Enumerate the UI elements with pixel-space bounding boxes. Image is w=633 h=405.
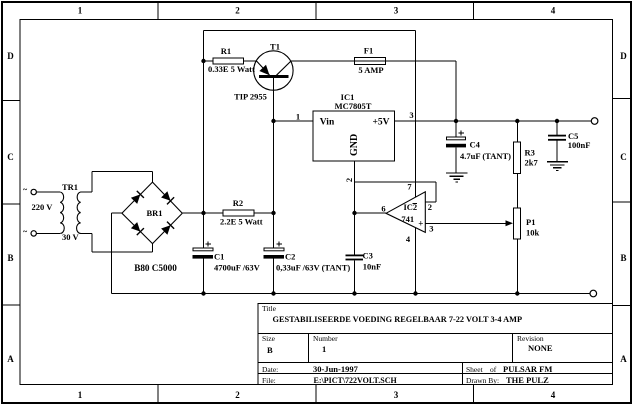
svg-text:2: 2 xyxy=(428,202,432,212)
svg-text:A: A xyxy=(7,354,14,364)
svg-text:GESTABILISEERDE VOEDING REGELB: GESTABILISEERDE VOEDING REGELBAAR 7-22 V… xyxy=(273,315,523,324)
node: C1 on ground rail xyxy=(201,291,205,295)
wire: R3 to P1 xyxy=(516,174,518,209)
svg-text:Date:: Date: xyxy=(262,365,278,374)
svg-text:3: 3 xyxy=(409,110,413,120)
capacitor C2 (polarized tantalum) xyxy=(264,242,351,294)
capacitor C4 (polarized) xyxy=(446,121,511,173)
svg-text:THE PULZ: THE PULZ xyxy=(506,375,549,385)
svg-text:GND: GND xyxy=(349,134,360,156)
wire: secondary bottom to bridge bottom corner xyxy=(81,233,153,252)
wire: feedback column x=354.5 down to C3 xyxy=(354,182,356,255)
wire: IC1 pin 1 lead xyxy=(274,120,314,122)
node: C4 junction on output rail xyxy=(454,119,458,123)
svg-text:C: C xyxy=(620,152,627,162)
node: P1 on ground rail xyxy=(515,291,519,295)
svg-text:0,33uF /63V (TANT): 0,33uF /63V (TANT) xyxy=(276,263,350,273)
node: R3 junction on output rail xyxy=(515,119,519,123)
svg-text:C4: C4 xyxy=(470,140,481,150)
node: T1 base / IC1 Vin junction xyxy=(271,119,275,123)
svg-text:C: C xyxy=(7,152,14,162)
wire: R3 top lead xyxy=(516,121,518,142)
capacitor C5 xyxy=(548,121,590,162)
svg-text:P1: P1 xyxy=(526,217,535,227)
node: R2 / C2 / T1-base column junction xyxy=(271,211,275,215)
svg-text:File:: File: xyxy=(262,376,276,385)
potentiometer P1 xyxy=(514,208,540,239)
wire: AC2 to primary winding xyxy=(36,232,60,234)
svg-text:C2: C2 xyxy=(285,252,295,262)
svg-text:B: B xyxy=(620,253,626,263)
svg-text:741: 741 xyxy=(401,214,414,224)
svg-text:3: 3 xyxy=(394,6,399,16)
svg-text:BR1: BR1 xyxy=(146,208,162,218)
svg-text:4: 4 xyxy=(551,6,556,16)
svg-text:C3: C3 xyxy=(363,251,373,261)
wire: secondary top to bridge top corner xyxy=(81,172,153,192)
fuse F1 xyxy=(355,46,386,65)
node: C2 on ground rail xyxy=(271,291,275,295)
svg-text:Drawn By:: Drawn By: xyxy=(466,376,499,385)
svg-text:T1: T1 xyxy=(270,42,280,52)
svg-text:6: 6 xyxy=(381,204,385,214)
svg-text:D: D xyxy=(620,51,627,61)
svg-text:TR1: TR1 xyxy=(62,182,78,192)
svg-text:Number: Number xyxy=(313,334,338,343)
node: IC2 pin 4 on ground rail xyxy=(413,291,417,295)
svg-text:Title: Title xyxy=(262,304,277,313)
wire: C3 to ground rail xyxy=(354,260,356,293)
wire: IC2 pin 6 lead xyxy=(355,212,387,214)
svg-text:A: A xyxy=(620,354,627,364)
input terminal AC2 xyxy=(23,227,36,236)
wire: F1 to output rail (down at x=456) xyxy=(386,61,457,121)
svg-text:100nF: 100nF xyxy=(568,140,591,150)
wire: AC1 to primary winding xyxy=(36,191,60,193)
wire: R1 left lead xyxy=(204,60,214,62)
bridge rectifier BR1 xyxy=(122,182,182,244)
ground symbol (C5) xyxy=(547,162,568,171)
node: C5 junction on output rail xyxy=(555,119,559,123)
svg-text:10nF: 10nF xyxy=(363,262,381,272)
svg-text:2: 2 xyxy=(344,178,354,182)
svg-text:4: 4 xyxy=(551,390,556,400)
svg-text:30 V: 30 V xyxy=(62,232,79,242)
wire: T1 base column from node 121 down to C2 xyxy=(273,121,275,248)
resistor R3 xyxy=(514,142,539,174)
svg-text:220 V: 220 V xyxy=(32,202,54,212)
wire: R1 to T1 emitter xyxy=(244,60,258,62)
wire: bridge plus (right corner) to R2 node xyxy=(182,212,223,214)
svg-text:4700uF /63V: 4700uF /63V xyxy=(214,263,261,273)
node: raw + / C1 junction xyxy=(201,211,205,215)
svg-text:0.33E 5 Watt: 0.33E 5 Watt xyxy=(208,64,255,74)
resistor R1 xyxy=(213,46,244,64)
op-amp V+ feed wire (x=415.5 from top rail to IC2 pin 7) xyxy=(415,31,417,198)
svg-text:+: + xyxy=(418,219,423,229)
svg-text:F1: F1 xyxy=(364,46,373,56)
svg-text:2: 2 xyxy=(235,390,240,400)
svg-text:R2: R2 xyxy=(233,198,243,208)
svg-text:C1: C1 xyxy=(214,252,224,262)
wire: IC1 GND pin to IC2 pin 2 xyxy=(355,161,437,202)
svg-text:Sheet: Sheet xyxy=(466,365,484,374)
svg-text:TIP 2955: TIP 2955 xyxy=(234,91,267,101)
svg-text:MC7805T: MC7805T xyxy=(335,101,372,111)
svg-text:1: 1 xyxy=(296,112,300,122)
title block xyxy=(258,304,613,385)
svg-text:Revision: Revision xyxy=(517,334,544,343)
wire: bridge minus (left corner) to ground rail xyxy=(112,213,122,293)
wire: P1 bottom to ground rail xyxy=(516,239,518,294)
svg-text:10k: 10k xyxy=(526,228,540,238)
regulator IC1 MC7805T xyxy=(313,92,395,161)
svg-text:4.7uF (TANT): 4.7uF (TANT) xyxy=(460,151,511,161)
node: C3 on ground rail xyxy=(352,291,356,295)
svg-text:B80 C5000: B80 C5000 xyxy=(134,263,177,273)
svg-text:5 AMP: 5 AMP xyxy=(358,65,383,75)
node: IC2 pin 6 junction xyxy=(352,211,356,215)
output terminal (-) xyxy=(590,290,597,297)
wire: T1 base down to IC1 input node xyxy=(273,78,275,121)
svg-text:+5V: +5V xyxy=(372,117,389,127)
wire: IC2 pin 4 down to ground rail xyxy=(415,228,417,294)
svg-text:2k7: 2k7 xyxy=(525,158,539,168)
transformer TR1 xyxy=(60,182,80,233)
op-amp IC2 741 xyxy=(386,192,425,233)
resistor R2 xyxy=(223,198,254,216)
svg-text:Vin: Vin xyxy=(320,117,335,127)
wire: bottom ground rail xyxy=(112,293,591,295)
svg-text:1: 1 xyxy=(322,344,326,354)
svg-text:D: D xyxy=(7,51,14,61)
svg-text:2.2E 5 Watt: 2.2E 5 Watt xyxy=(220,217,263,227)
transistor T1 TIP 2955 xyxy=(234,42,293,102)
wire: T1 collector to fuse F1 xyxy=(291,60,355,62)
node: junction left rail / R1 xyxy=(201,59,205,63)
diode BR1 top-right xyxy=(161,191,174,204)
svg-text:of: of xyxy=(490,365,497,374)
P1 wiper arrowhead xyxy=(506,220,514,226)
svg-text:3: 3 xyxy=(429,224,433,234)
svg-text:1: 1 xyxy=(78,390,83,400)
svg-text:1: 1 xyxy=(78,6,83,16)
svg-text:2: 2 xyxy=(235,6,240,16)
svg-text:30-Jun-1997: 30-Jun-1997 xyxy=(313,364,359,374)
input terminal AC1 xyxy=(23,185,36,195)
svg-text:PULSAR FM: PULSAR FM xyxy=(503,364,552,374)
capacitor C1 (polarized) xyxy=(193,213,261,294)
wire: top rail from left rail to op-amp V+ column xyxy=(204,30,416,32)
wire: R2 right lead xyxy=(254,212,274,214)
svg-text:E:\PICT\722VOLT.SCH: E:\PICT\722VOLT.SCH xyxy=(314,376,398,385)
diode BR1 top-left xyxy=(130,191,143,204)
svg-text:R3: R3 xyxy=(525,148,535,158)
ground symbol (C4) xyxy=(446,173,467,182)
wire: left raw + rail xyxy=(203,31,205,214)
wire: IC1 pin 3 output to terminal xyxy=(395,120,592,122)
diode BR1 bottom-left xyxy=(130,222,143,235)
svg-text:3: 3 xyxy=(394,390,399,400)
svg-text:NONE: NONE xyxy=(528,343,553,353)
wire: IC2 pin 3 to P1 wiper xyxy=(426,222,507,224)
svg-text:B: B xyxy=(7,253,13,263)
svg-text:Size: Size xyxy=(262,334,276,343)
svg-text:R1: R1 xyxy=(221,46,231,56)
diode BR1 bottom-right xyxy=(161,222,174,235)
output terminal (+) xyxy=(591,118,598,125)
svg-text:B: B xyxy=(267,345,273,355)
capacitor C3 xyxy=(346,251,382,272)
